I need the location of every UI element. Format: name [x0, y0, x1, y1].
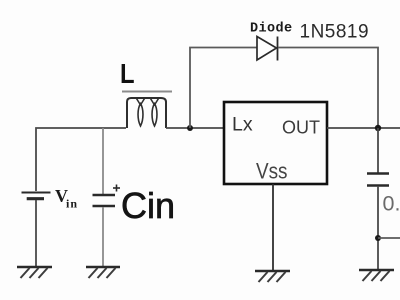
wire: [278, 48, 378, 129]
label Vin: [55, 186, 78, 211]
wire: [36, 128, 126, 191]
capacitor Cout: [367, 174, 389, 186]
wire Vss: [272, 184, 274, 271]
battery Vin: [22, 193, 51, 199]
ground: [359, 270, 394, 281]
svg-text:Cin: Cin: [121, 185, 175, 226]
svg-text:0.: 0.: [383, 192, 400, 216]
wire: [378, 237, 400, 239]
wire: [102, 207, 104, 267]
diode D1: [257, 37, 278, 61]
IC U1: [224, 102, 327, 184]
node junction: [375, 125, 381, 131]
inductor L: [122, 92, 172, 129]
capacitor Cin: [93, 185, 121, 207]
wire: [35, 200, 37, 267]
wire: [166, 127, 224, 129]
node junction: [187, 125, 193, 131]
node junction: [375, 235, 381, 241]
wire: [190, 48, 257, 129]
wire: [327, 127, 400, 129]
svg-text:OUT: OUT: [282, 118, 320, 138]
svg-text:L: L: [120, 57, 135, 89]
ground: [17, 267, 52, 278]
svg-text:1N5819: 1N5819: [300, 22, 370, 43]
svg-text:in: in: [66, 197, 78, 211]
svg-text:Vss: Vss: [256, 159, 288, 184]
wire: [377, 186, 379, 270]
svg-text:Lx: Lx: [232, 114, 253, 136]
ground: [255, 271, 290, 282]
svg-text:Diode: Diode: [250, 22, 293, 37]
wire: [102, 128, 104, 194]
ground: [86, 267, 120, 278]
wire: [377, 128, 379, 173]
